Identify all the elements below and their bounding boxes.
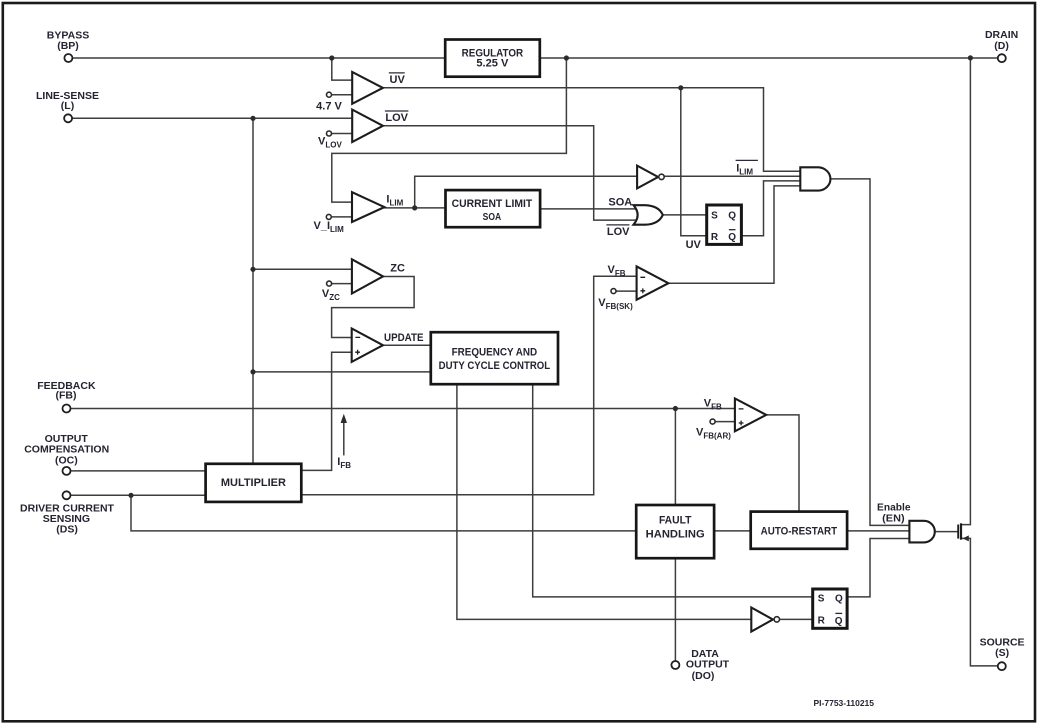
block AUTO-RESTART — [751, 512, 847, 549]
wire BP node to I_LIM comparator top input — [332, 58, 567, 202]
wire LINE-SENSE rail y=118 — [72, 117, 353, 119]
node BP-UV junction — [329, 55, 334, 60]
wire latch U4 Qbar to AND U3 input 3 — [741, 181, 801, 236]
svg-text:LOV: LOV — [385, 112, 408, 124]
block FREQUENCY AND DUTY CYCLE CONTROL — [431, 332, 558, 384]
wire FB node to FAULT HANDLING top — [674, 409, 676, 506]
inverter U2 (I_LIM) — [637, 166, 658, 189]
wire SOA to OR gate upper input — [539, 208, 640, 210]
node L junction 2 (ZC) — [250, 267, 255, 272]
comparator I_LIM — [352, 192, 384, 222]
latch U10 SR — [813, 589, 847, 628]
wire inverter U2 output to AND U3 input 2 — [664, 175, 800, 177]
svg-text:S: S — [818, 593, 825, 604]
svg-text:MULTIPLIER: MULTIPLIER — [221, 477, 286, 489]
terminal DRAIN (D) — [998, 54, 1006, 62]
ref circle V_LOV — [327, 131, 332, 136]
svg-text:Q: Q — [835, 593, 843, 604]
wire OR gate output to latch U4 S input — [663, 214, 708, 216]
wire LOV comparator output to OR gate lower input — [383, 126, 641, 220]
I_FB current arrow — [343, 420, 345, 455]
svg-text:R: R — [711, 232, 719, 243]
wire V_FB(AR) comparator output to AUTO-RESTART top — [766, 415, 799, 512]
wire node L to ZC comparator top input — [253, 268, 353, 270]
svg-text:FAULT: FAULT — [659, 515, 692, 527]
wire BP branch to UV comparator top input — [332, 58, 353, 80]
block FAULT HANDLING — [636, 505, 714, 558]
wire UPDATE comparator output to FREQUENCY block — [383, 344, 431, 346]
svg-text:(BP): (BP) — [57, 40, 79, 52]
svg-text:LOV: LOV — [607, 226, 630, 238]
AND gate U3 — [800, 167, 830, 190]
svg-text:(DS): (DS) — [56, 524, 78, 536]
svg-text:Q: Q — [728, 211, 736, 222]
wire LINE-SENSE vertical to MULTIPLIER top — [252, 118, 254, 464]
AND gate U9 (enable) — [909, 521, 934, 543]
terminal OUTPUT COMPENSATION (OC) — [63, 467, 71, 475]
OR gate U5 — [634, 205, 663, 225]
terminal SOURCE (S) — [998, 662, 1006, 670]
svg-text:4.7 V: 4.7 V — [316, 100, 342, 112]
wire AUTO-RESTART output to AND U9 input 2 — [847, 530, 909, 532]
terminal FEEDBACK (FB) — [63, 405, 71, 413]
ref circle V_I_LIM — [326, 214, 331, 219]
wire latch U10 Q output to AND U9 input 3 — [847, 539, 910, 597]
svg-text:UV: UV — [390, 74, 406, 86]
svg-text:(FB): (FB) — [56, 389, 77, 401]
wire DRIVER CURRENT SENSING to MULTIPLIER — [71, 494, 206, 496]
svg-text:Q: Q — [728, 232, 736, 243]
wire MOSFET source to SOURCE terminal — [961, 538, 998, 666]
wire DS branch to FAULT HANDLING left input — [131, 495, 636, 531]
svg-text:(D): (D) — [994, 40, 1009, 52]
terminal BYPASS (BP) — [64, 54, 72, 62]
inverter U8 (bottom) — [751, 608, 773, 632]
svg-text:CURRENT LIMIT: CURRENT LIMIT — [452, 198, 533, 210]
comparator V_FB(SK) — [637, 266, 669, 299]
svg-text:HANDLING: HANDLING — [646, 528, 705, 540]
latch U4 SR — [707, 205, 742, 244]
svg-text:5.25 V: 5.25 V — [476, 58, 509, 70]
wire FREQUENCY block output to inverter U8 input — [457, 384, 752, 619]
block REGULATOR 5.25V — [445, 40, 540, 77]
block CURRENT LIMIT SOA — [446, 190, 541, 227]
svg-text:UPDATE: UPDATE — [384, 332, 424, 344]
wire inverter U8 output to latch U10 R input — [780, 618, 813, 620]
svg-text:R: R — [818, 616, 826, 627]
wire 4.7V stub — [332, 94, 353, 96]
comparator LOV — [352, 110, 383, 142]
svg-text:S: S — [711, 211, 718, 222]
svg-text:(L): (L) — [61, 100, 74, 112]
wire V_LOV stub — [332, 133, 353, 135]
node BP-ILIM junction — [564, 55, 569, 60]
wire AND U3 output to AND U9 input 1 — [830, 179, 909, 526]
block MULTIPLIER — [206, 464, 302, 502]
node UV junction — [678, 85, 683, 90]
wire MULTIPLIER bottom output to V_FB(SK) comparator minus input — [301, 276, 637, 495]
wire I_LIM node to inverter U2 input — [415, 176, 638, 208]
node drain junction — [968, 55, 973, 60]
svg-text:ZC: ZC — [390, 263, 405, 275]
terminal LINE-SENSE (L) — [64, 114, 72, 122]
wire UV to latch U4 R input — [681, 88, 708, 236]
svg-text:(S): (S) — [995, 647, 1009, 659]
svg-text:(EN): (EN) — [882, 512, 905, 524]
svg-text:DUTY CYCLE CONTROL: DUTY CYCLE CONTROL — [439, 360, 551, 372]
wire ZC comparator output to UPDATE comparator minus input — [332, 277, 415, 338]
svg-text:SOA: SOA — [608, 196, 632, 208]
svg-text:SOA: SOA — [483, 211, 502, 223]
node I_LIM junction — [412, 205, 417, 210]
svg-text:(OC): (OC) — [55, 454, 78, 466]
comparator UV — [352, 72, 383, 104]
ref circle V_FB(AR) — [710, 419, 715, 424]
node FB junction — [673, 406, 678, 411]
comparator V_FB(AR) — [735, 399, 766, 432]
node L junction 1 — [250, 116, 255, 121]
ref circle V_ZC — [327, 281, 332, 286]
svg-text:PI-7753-110215: PI-7753-110215 — [814, 698, 875, 708]
wire V_I_LIM stub — [332, 216, 353, 218]
wire V_FB(AR) stub — [715, 421, 735, 423]
wire V_FB(SK) stub — [616, 290, 637, 292]
wire drain rail to MOSFET — [961, 58, 971, 525]
ref circle V_FB(SK) — [611, 289, 616, 294]
terminal DRIVER CURRENT SENSING (DS) — [63, 491, 71, 499]
svg-text:(DO): (DO) — [692, 670, 715, 682]
svg-text:FREQUENCY AND: FREQUENCY AND — [452, 346, 538, 358]
comparator UPDATE — [352, 329, 383, 362]
node L junction 3 (FREQ) — [250, 369, 255, 374]
svg-text:Q: Q — [835, 616, 843, 627]
svg-text:AUTO-RESTART: AUTO-RESTART — [761, 526, 838, 538]
ref circle 4.7V — [327, 92, 332, 97]
comparator ZC — [352, 259, 383, 293]
wire FREQUENCY block output to latch U10 S input — [533, 384, 813, 597]
MOSFET Q1 — [957, 525, 959, 539]
wire AND U9 output to MOSFET gate — [935, 531, 959, 533]
wire BP rail y=58 — [73, 57, 998, 59]
wire UV comparator output to AND U3 input 1 — [383, 88, 801, 171]
wire FAULT HANDLING bottom to DATA OUTPUT — [674, 558, 676, 661]
wire V_FB(SK) comparator output to AND U3 input 4 — [668, 186, 801, 283]
terminal DATA OUTPUT (DO) — [671, 661, 679, 669]
svg-text:OUTPUT: OUTPUT — [686, 658, 730, 670]
wire FAULT HANDLING output to AUTO-RESTART — [714, 530, 751, 532]
node DS junction — [128, 493, 133, 498]
wire MULTIPLIER top output to UPDATE comparator plus input — [301, 352, 352, 470]
wire node L to FREQUENCY block lower input — [253, 371, 431, 373]
wire V_ZC stub — [332, 283, 353, 285]
wire OUTPUT COMPENSATION to MULTIPLIER — [71, 470, 206, 472]
wire I_LIM comparator output to CURRENT LIMIT SOA — [384, 207, 445, 209]
wire FEEDBACK rail y=408 — [71, 408, 736, 410]
svg-text:UV: UV — [686, 239, 702, 251]
